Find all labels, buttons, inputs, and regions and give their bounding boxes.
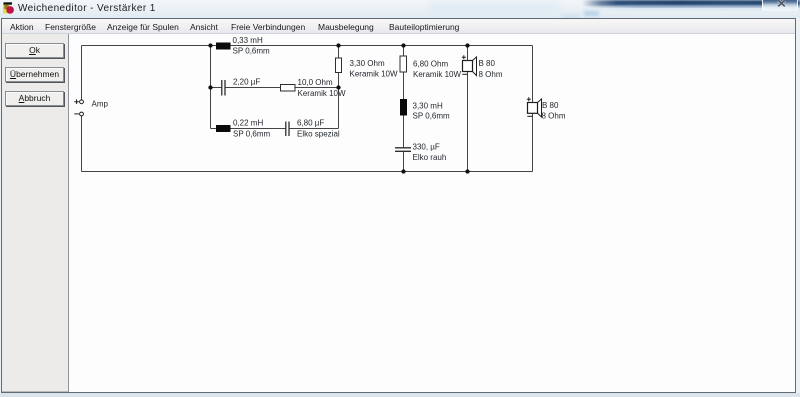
wire: branch A vertical (node top to low row corner): [210, 46, 212, 129]
speaker SP1 B80 (driver box, cone, +/- marks): [462, 55, 477, 75]
wire: low row segments (L2/C2 path): [211, 128, 339, 130]
resistor R3 6,80 Ohm: [400, 56, 407, 72]
inductor L2 0,22 mH: [216, 125, 231, 132]
amp terminal - (minus sign and open node circle): [74, 112, 83, 116]
speaker SP2 B80 (driver box, cone, +/- marks): [527, 97, 542, 117]
junction: top rail / branch A: [208, 43, 212, 47]
capacitor C3 330 uF plates: [395, 148, 411, 152]
capacitor C1 2,20 uF plates: [222, 80, 225, 96]
capacitor C2 6,80 uF plates: [286, 122, 289, 137]
junction: top rail / branch B: [336, 43, 340, 47]
inductor L3 3,30 mH: [400, 99, 407, 116]
inductor L1 0,33 mH: [216, 43, 231, 50]
amp terminal + (plus sign and open node circle): [74, 99, 83, 104]
junction: top rail / branch C: [401, 43, 405, 47]
junction: mid row / branch A: [208, 85, 212, 89]
resistor R1 10,0 Ohm: [281, 85, 296, 92]
wire: branch C vertical through R3,L3,C3: [403, 46, 405, 172]
junction: top rail / SP1 branch: [465, 43, 469, 47]
junction: mid row / branch B: [336, 85, 340, 89]
wire: amp - terminal down to bottom rail: [81, 116, 83, 171]
junction: bottom rail / SP1 branch: [465, 169, 469, 173]
junction: bottom rail / branch C: [401, 169, 405, 173]
wire: top rail from amp + to right edge: [82, 45, 533, 47]
wire: bottom return rail: [82, 171, 533, 173]
wire: mid row segments (C1/R1 path): [211, 87, 339, 89]
wire: amp + terminal up to top rail: [81, 46, 83, 100]
wire: right edge vertical through SP2: [532, 46, 534, 172]
wire: speaker SP1 branch vertical: [467, 46, 469, 172]
wire: branch B vertical through R2: [338, 46, 340, 129]
resistor R2 3,30 Ohm: [336, 58, 342, 73]
